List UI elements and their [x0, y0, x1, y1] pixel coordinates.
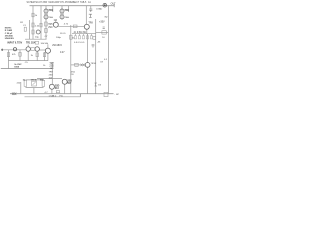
- input terminal dot: [2, 49, 4, 51]
- resistor R9: [19, 52, 21, 56]
- resistor bank RE3: [82, 36, 84, 39]
- transistor Q1: [44, 9, 48, 13]
- svg-text:R 1/4W: R 1/4W: [5, 29, 13, 32]
- capacitor C11: [93, 36, 96, 39]
- transistor Q7 driver: [84, 24, 89, 29]
- svg-text:FG: FG: [60, 95, 63, 97]
- fuse F1: [12, 93, 16, 96]
- svg-text:2SC1815: 2SC1815: [52, 45, 62, 47]
- resistor R16: [40, 23, 42, 27]
- resistor R7: [45, 29, 48, 33]
- wire vertical x29: [29, 20, 31, 39]
- svg-text:SECT: SECT: [73, 2, 80, 4]
- wire snubber stub: [90, 6, 92, 9]
- capacitor C7: [89, 9, 92, 12]
- wire q9 emitter: [51, 89, 53, 94]
- wire q1 q2 link: [39, 49, 45, 51]
- svg-text:2-CH: 2-CH: [37, 2, 43, 4]
- wire top supply rail: [30, 5, 115, 7]
- resistor bank RE5: [90, 36, 92, 39]
- wire q13 emitter drop: [87, 67, 89, 93]
- wire vertical q pair right: [61, 6, 63, 20]
- capacitor C10: [104, 92, 108, 96]
- transistor Q8: [62, 79, 67, 84]
- svg-text:0.5 0.5 0.5: 0.5 0.5 0.5: [74, 42, 85, 44]
- transistor Q13 out: [85, 63, 90, 68]
- capacitor C1: [24, 27, 26, 31]
- wire input shunt right: [19, 50, 21, 61]
- transistor Q4: [60, 15, 64, 19]
- svg-text:TR1 2SA: TR1 2SA: [26, 42, 36, 45]
- transistor Q10 diff: [26, 47, 30, 51]
- wire q4 emitter: [86, 29, 88, 33]
- wire q12 base stub: [47, 44, 49, 48]
- capacitor C2 input: [13, 48, 16, 51]
- transistor Q12: [45, 48, 50, 53]
- output terminal tick: [113, 4, 115, 7]
- wire vertical second chain: [40, 6, 42, 40]
- svg-text:OUT: OUT: [111, 3, 117, 6]
- diode D2: [95, 83, 98, 86]
- wire bottom ground rail: [25, 94, 81, 97]
- svg-text:2SA: 2SA: [65, 16, 70, 19]
- transistor Q9: [49, 84, 54, 89]
- svg-text:VR 5k: VR 5k: [31, 80, 38, 82]
- wire feedback tap: [71, 64, 86, 66]
- trimmer VR1: [32, 81, 37, 86]
- wire q13 collector up: [87, 34, 89, 63]
- wire zobel line: [96, 31, 109, 33]
- wire q10 emitter: [64, 84, 66, 94]
- svg-text:TR10: TR10: [91, 63, 97, 65]
- wire re bank stubs: [76, 34, 92, 36]
- capacitor C12 mark: [92, 45, 95, 48]
- svg-text:1060: 1060: [14, 66, 20, 68]
- svg-text:TR2: TR2: [65, 10, 70, 12]
- inductor L1: [103, 3, 107, 7]
- resistor R4: [45, 22, 48, 26]
- svg-text:1N: 1N: [98, 84, 101, 86]
- svg-text:TR8: TR8: [88, 22, 93, 24]
- resistor bank RE2: [78, 36, 80, 39]
- resistor R2: [32, 23, 34, 27]
- svg-text:2SA: 2SA: [49, 16, 54, 19]
- resistor R3: [32, 30, 34, 34]
- resistor R14 bias trio c: [42, 80, 45, 86]
- transistor Q2: [44, 15, 48, 19]
- crossover X1: [81, 64, 85, 67]
- svg-text:100p: 100p: [56, 37, 62, 39]
- wire right feedback vertical: [95, 19, 97, 94]
- capacitor C3: [35, 41, 38, 44]
- svg-text:TAB-5: TAB-5: [80, 1, 87, 4]
- resistor R21: [75, 63, 79, 66]
- wire bottom rail V-: [10, 93, 114, 95]
- wire x20 drop: [20, 82, 22, 94]
- resistor R24 zobel: [102, 31, 106, 34]
- resistor R1: [32, 13, 34, 17]
- wire tr9 collector vertical: [51, 62, 53, 84]
- svg-text:25W: 25W: [43, 2, 49, 4]
- wire long center bus: [70, 25, 72, 94]
- svg-text:2SD: 2SD: [49, 75, 54, 77]
- resistor R5: [45, 13, 47, 15]
- resistor R11: [36, 53, 38, 57]
- wire trio bottom drop: [33, 88, 35, 94]
- svg-text:4× 0.5Ω 1W: 4× 0.5Ω 1W: [74, 31, 87, 34]
- wire trio bottom link: [26, 87, 44, 89]
- wire output emitter bus: [72, 33, 96, 35]
- resistor R13 bias trio a: [24, 80, 27, 86]
- wire mid ground bus: [1, 68, 53, 70]
- wire vertical left resistor chain: [32, 6, 34, 40]
- svg-text:+35V: +35V: [99, 21, 105, 24]
- svg-text:0.47: 0.47: [60, 52, 65, 54]
- transistor Q5: [36, 30, 40, 34]
- node output dot: [104, 4, 106, 6]
- wire stub x68: [68, 6, 70, 12]
- wire vas line: [58, 25, 84, 27]
- input terminal J1: [1, 49, 3, 52]
- wire x44 drop: [44, 52, 46, 61]
- svg-text:←SP: ←SP: [114, 94, 120, 96]
- svg-text:UNLESS: UNLESS: [5, 38, 14, 40]
- svg-text:R 0.5: R 0.5: [60, 33, 66, 35]
- resistor bank RE1: [74, 36, 76, 39]
- svg-text:1 TAB 2: 1 TAB 2: [49, 95, 57, 98]
- resistor R8: [7, 53, 9, 57]
- capacitor C8: [103, 27, 105, 28]
- diode D1: [89, 14, 92, 17]
- wire input shunt left: [8, 50, 10, 69]
- wire trio top link: [26, 79, 44, 81]
- wire tr5 top: [55, 20, 57, 23]
- svg-text:INPUT 0.775V: INPUT 0.775V: [7, 42, 22, 44]
- resistor R22: [70, 35, 73, 39]
- transistor Q6 vas: [53, 22, 58, 27]
- svg-text:TR1: TR1: [49, 10, 54, 12]
- resistor R6: [61, 13, 63, 15]
- transistor Q11 diff: [35, 47, 39, 51]
- wire far right output vertical: [107, 6, 109, 94]
- svg-text:LOAD: LOAD: [96, 7, 102, 10]
- wire driver base line: [37, 78, 62, 80]
- resistor R20: [73, 25, 77, 28]
- resistor bank RE4: [86, 36, 88, 39]
- wire x80 rail link: [79, 94, 81, 97]
- transistor Q3: [60, 9, 64, 13]
- wire input line: [3, 49, 26, 51]
- wire q2 emitter: [36, 51, 38, 60]
- wire q4 collector top: [85, 6, 87, 25]
- wire q3 collector tick: [64, 9, 69, 11]
- resistor R12: [43, 53, 45, 57]
- svg-text:2SC: 2SC: [48, 27, 53, 29]
- wire stub x52: [52, 6, 54, 12]
- wire q1 collector tick: [48, 9, 53, 11]
- svg-text:8Ω: 8Ω: [105, 16, 108, 18]
- wire q1 emitter: [27, 51, 29, 60]
- trimmer wiper: [32, 82, 35, 85]
- resistor R10: [31, 48, 35, 51]
- wire lower bias line: [8, 60, 48, 62]
- resistor R15: [56, 91, 59, 93]
- wire q10 base stub: [27, 45, 29, 47]
- wire collector load line: [25, 38, 47, 40]
- wire vertical mirror chain: [45, 6, 47, 40]
- wire q3 emitter: [47, 53, 49, 60]
